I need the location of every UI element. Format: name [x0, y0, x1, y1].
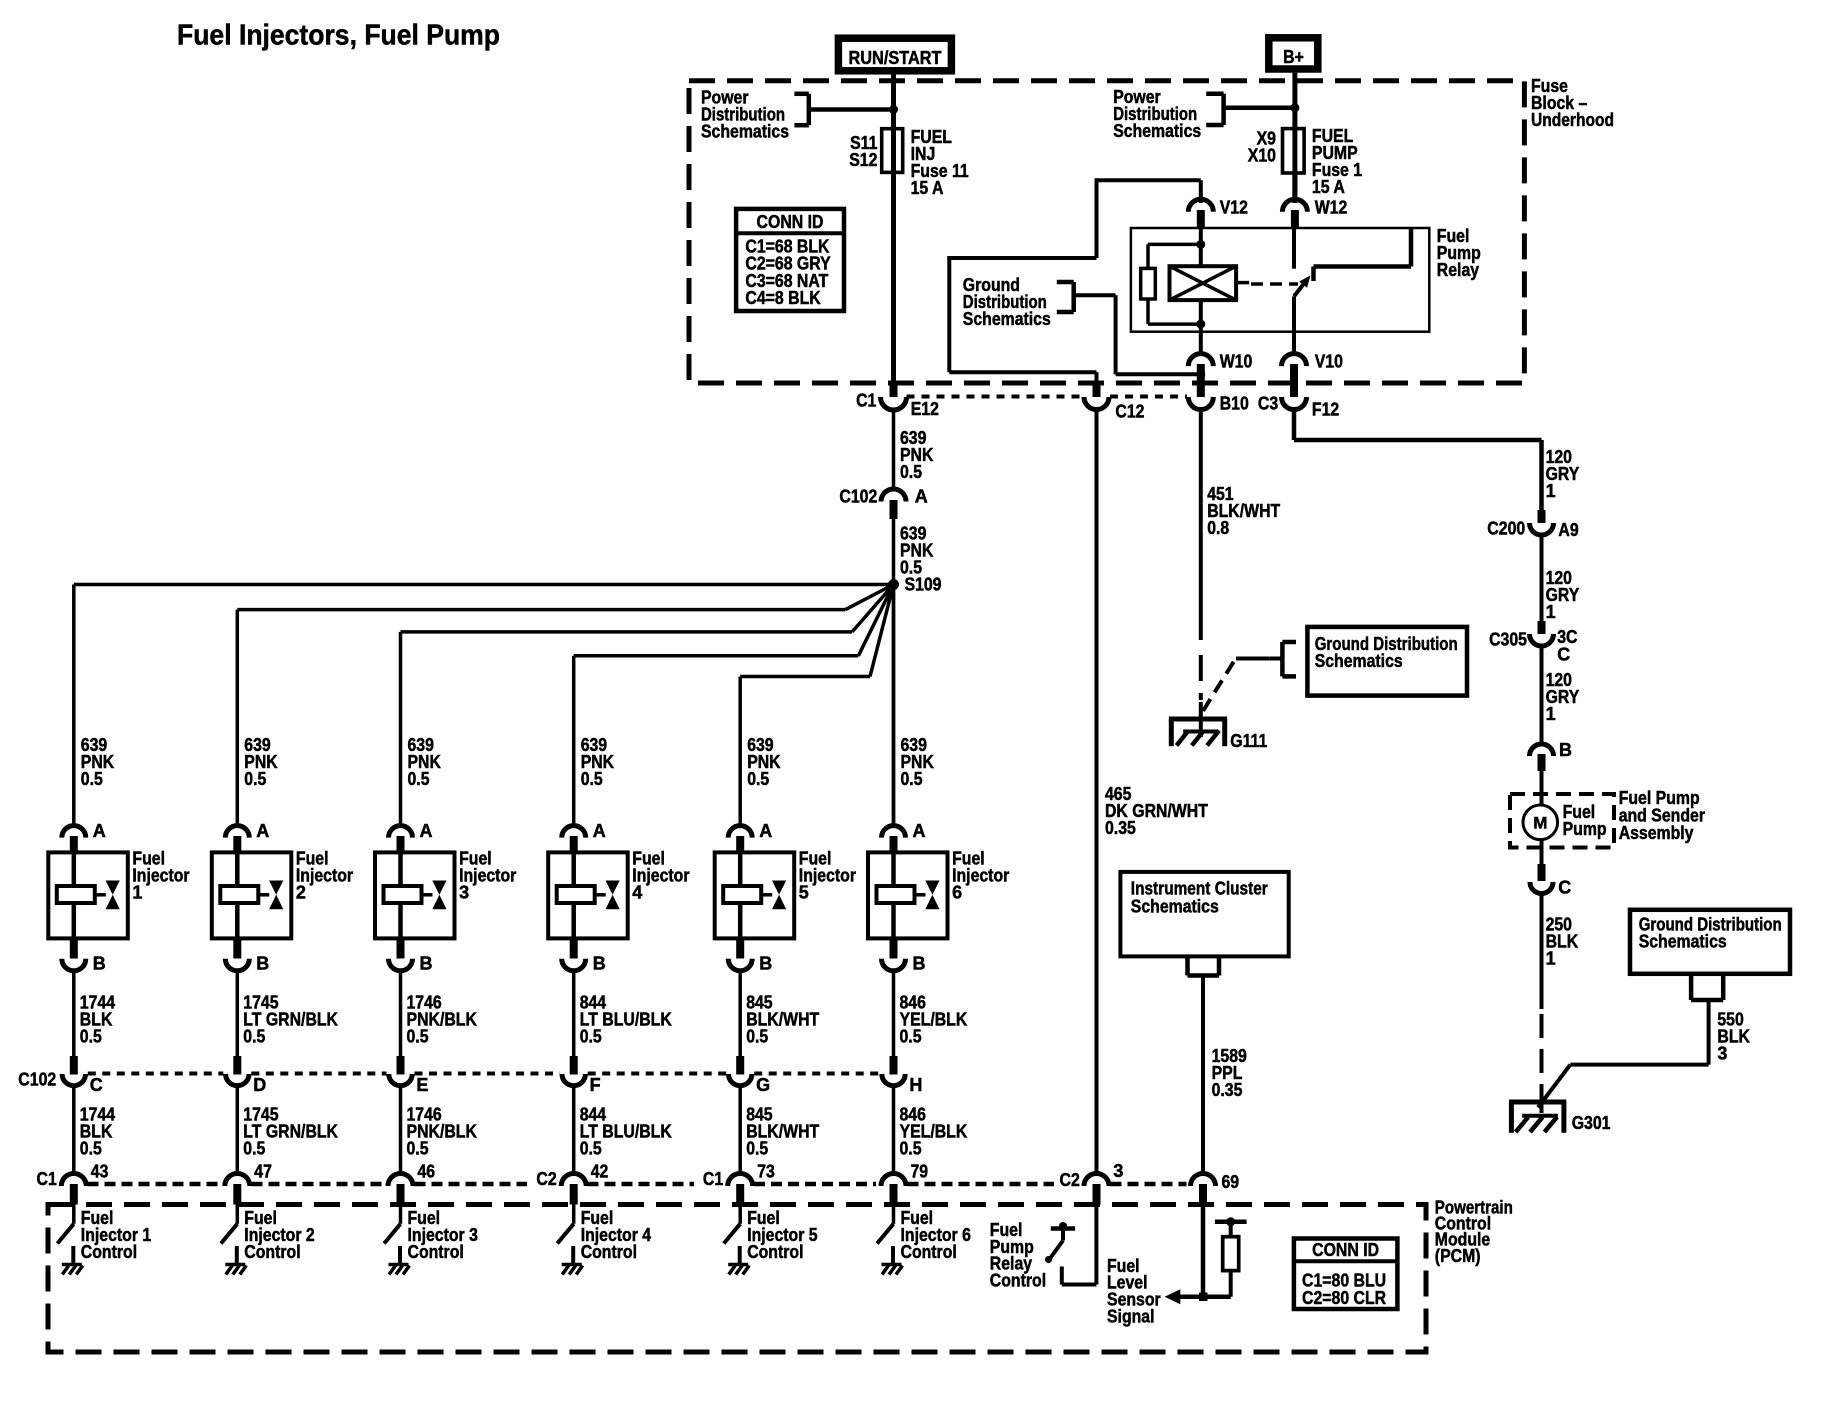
svg-text:M: M [1533, 814, 1547, 833]
svg-text:Fuel Injectors, Fuel Pump: Fuel Injectors, Fuel Pump [177, 20, 500, 52]
svg-text:43: 43 [91, 1162, 109, 1182]
svg-text:0.8: 0.8 [1207, 518, 1229, 538]
svg-text:A9: A9 [1558, 520, 1578, 540]
svg-text:Control: Control [747, 1242, 803, 1262]
svg-text:C2=80 CLR: C2=80 CLR [1302, 1288, 1386, 1308]
svg-text:A: A [420, 821, 433, 841]
svg-text:W12: W12 [1315, 198, 1348, 218]
svg-text:79: 79 [911, 1162, 929, 1182]
svg-text:0.5: 0.5 [746, 1027, 768, 1047]
svg-text:B: B [913, 954, 926, 974]
svg-text:C102: C102 [839, 487, 877, 507]
svg-text:A: A [593, 821, 606, 841]
svg-text:A: A [93, 821, 106, 841]
svg-text:3: 3 [1113, 1161, 1123, 1181]
svg-text:C3: C3 [1258, 393, 1278, 413]
svg-text:A: A [759, 821, 772, 841]
svg-text:0.5: 0.5 [243, 1139, 265, 1159]
svg-text:Control: Control [990, 1270, 1046, 1290]
svg-text:0.5: 0.5 [408, 769, 430, 789]
svg-text:Pump: Pump [1563, 819, 1607, 839]
svg-text:B10: B10 [1220, 393, 1249, 413]
svg-text:Control: Control [244, 1242, 300, 1262]
svg-text:V12: V12 [1220, 198, 1248, 218]
svg-text:0.5: 0.5 [900, 1027, 922, 1047]
svg-text:C102: C102 [18, 1069, 56, 1089]
svg-text:1: 1 [1546, 704, 1556, 724]
svg-text:G111: G111 [1230, 731, 1267, 751]
svg-text:Assembly: Assembly [1619, 823, 1694, 843]
svg-text:W10: W10 [1220, 352, 1253, 372]
svg-text:47: 47 [254, 1162, 272, 1182]
svg-text:S109: S109 [905, 574, 942, 594]
svg-text:1: 1 [1546, 949, 1556, 969]
svg-text:0.5: 0.5 [747, 769, 769, 789]
svg-text:V10: V10 [1315, 352, 1343, 372]
svg-text:Schematics: Schematics [1131, 897, 1219, 917]
svg-text:0.5: 0.5 [746, 1139, 768, 1159]
svg-text:2: 2 [296, 883, 306, 903]
svg-text:15 A: 15 A [911, 178, 944, 198]
svg-text:0.5: 0.5 [407, 1027, 429, 1047]
svg-text:3: 3 [1717, 1044, 1727, 1064]
svg-text:C12: C12 [1115, 402, 1144, 422]
svg-text:C200: C200 [1487, 519, 1525, 539]
svg-text:15 A: 15 A [1312, 177, 1345, 197]
svg-text:A: A [913, 821, 926, 841]
svg-text:Signal: Signal [1107, 1307, 1155, 1327]
svg-text:6: 6 [952, 883, 962, 903]
svg-text:RUN/START: RUN/START [849, 48, 942, 68]
svg-text:Underhood: Underhood [1531, 110, 1614, 130]
svg-text:C: C [1558, 878, 1571, 898]
svg-text:Control: Control [81, 1242, 137, 1262]
svg-text:Control: Control [581, 1242, 637, 1262]
svg-text:E12: E12 [911, 399, 939, 419]
svg-text:0.5: 0.5 [81, 769, 103, 789]
svg-text:Schematics: Schematics [701, 122, 789, 142]
svg-text:B: B [593, 954, 606, 974]
svg-text:0.35: 0.35 [1105, 818, 1136, 838]
svg-text:0.35: 0.35 [1212, 1080, 1243, 1100]
svg-text:C2: C2 [1060, 1170, 1080, 1190]
svg-text:(PCM): (PCM) [1435, 1246, 1481, 1266]
svg-text:C4=8 BLK: C4=8 BLK [745, 288, 820, 308]
svg-text:Schematics: Schematics [1639, 932, 1727, 952]
svg-text:Relay: Relay [1437, 260, 1479, 280]
svg-text:Schematics: Schematics [1315, 651, 1403, 671]
svg-text:0.5: 0.5 [900, 462, 922, 482]
svg-text:Control: Control [408, 1242, 464, 1262]
svg-text:B: B [93, 954, 106, 974]
svg-text:42: 42 [591, 1162, 609, 1182]
svg-text:46: 46 [418, 1162, 436, 1182]
svg-text:4: 4 [632, 883, 642, 903]
svg-text:B: B [1559, 740, 1572, 760]
svg-text:0.5: 0.5 [80, 1027, 102, 1047]
svg-text:Schematics: Schematics [963, 309, 1051, 329]
svg-text:0.5: 0.5 [581, 769, 603, 789]
svg-text:G: G [756, 1075, 770, 1095]
svg-text:CONN ID: CONN ID [1312, 1240, 1379, 1260]
svg-text:1: 1 [132, 883, 142, 903]
svg-text:A: A [915, 487, 928, 507]
svg-text:0.5: 0.5 [901, 769, 923, 789]
svg-text:1: 1 [1546, 602, 1556, 622]
svg-text:F: F [590, 1075, 601, 1095]
svg-text:Schematics: Schematics [1113, 121, 1201, 141]
svg-text:C1: C1 [703, 1169, 723, 1189]
svg-text:C: C [90, 1075, 103, 1095]
svg-text:3: 3 [459, 883, 469, 903]
svg-text:B: B [256, 954, 269, 974]
svg-text:B: B [759, 954, 772, 974]
svg-text:B+: B+ [1283, 47, 1304, 67]
svg-text:0.5: 0.5 [244, 769, 266, 789]
svg-text:H: H [909, 1075, 922, 1095]
svg-text:S12: S12 [849, 150, 877, 170]
svg-text:C: C [1557, 645, 1570, 665]
svg-text:0.5: 0.5 [407, 1139, 429, 1159]
svg-text:A: A [256, 821, 269, 841]
svg-text:X10: X10 [1248, 146, 1276, 166]
svg-text:69: 69 [1222, 1172, 1240, 1192]
svg-text:CONN ID: CONN ID [757, 212, 824, 232]
svg-text:C2: C2 [536, 1169, 556, 1189]
svg-text:0.5: 0.5 [80, 1139, 102, 1159]
svg-text:C1: C1 [856, 391, 876, 411]
svg-text:C1: C1 [37, 1169, 57, 1189]
svg-text:0.5: 0.5 [580, 1027, 602, 1047]
svg-text:D: D [253, 1075, 266, 1095]
svg-text:C305: C305 [1489, 630, 1527, 650]
svg-text:F12: F12 [1312, 400, 1339, 420]
svg-text:E: E [416, 1075, 428, 1095]
svg-text:Control: Control [901, 1242, 957, 1262]
svg-text:G301: G301 [1572, 1113, 1611, 1133]
svg-text:B: B [420, 954, 433, 974]
svg-text:0.5: 0.5 [900, 1139, 922, 1159]
svg-text:Instrument Cluster: Instrument Cluster [1131, 879, 1268, 899]
svg-text:5: 5 [799, 883, 809, 903]
svg-text:0.5: 0.5 [580, 1139, 602, 1159]
svg-text:73: 73 [757, 1162, 775, 1182]
svg-text:1: 1 [1546, 481, 1556, 501]
svg-text:0.5: 0.5 [243, 1027, 265, 1047]
